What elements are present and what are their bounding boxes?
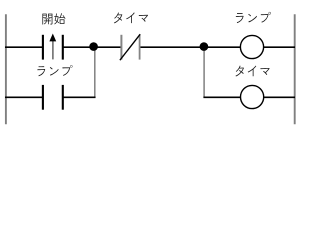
wire: lamp contact to branch A corner xyxy=(63,96,96,98)
label ランプ (lamp coil) xyxy=(236,12,271,23)
wire: left rail to lamp contact xyxy=(5,96,43,98)
label タイマ (NC contact) xyxy=(114,12,148,23)
label 開始 xyxy=(42,13,65,24)
wire: timer NC contact to node B xyxy=(140,46,204,48)
right power rail xyxy=(294,14,296,124)
contact 開始 left plate xyxy=(42,35,44,60)
contact 開始 rising-edge arrow shaft xyxy=(52,41,54,60)
junction node A xyxy=(89,42,98,51)
wire: lamp coil to right rail xyxy=(264,46,295,48)
wire: left rail to start contact xyxy=(5,46,43,48)
contact タイマ NC left plate xyxy=(120,35,122,60)
left power rail xyxy=(5,14,7,124)
wire: start contact to node A xyxy=(63,46,94,48)
contact タイマ NC right plate xyxy=(139,35,141,60)
wire: timer coil to right rail xyxy=(264,96,295,98)
coil ランプ xyxy=(240,35,263,58)
label タイマ (timer coil) xyxy=(236,66,270,77)
label ランプ (lamp contact) xyxy=(37,65,72,76)
wire: branch B corner to timer coil xyxy=(203,96,240,98)
contact ランプ right plate xyxy=(62,85,64,110)
contact 開始 right plate xyxy=(62,35,64,60)
contact タイマ NC slash xyxy=(120,34,140,60)
wire: node B to lamp coil xyxy=(204,46,240,48)
contact 開始 rising-edge arrow head xyxy=(49,34,56,42)
wire: node A to timer NC contact xyxy=(94,46,122,48)
branch wire from node A down to rung 2 xyxy=(94,47,96,97)
coil タイマ xyxy=(241,85,264,108)
contact ランプ left plate xyxy=(42,85,44,110)
branch wire from node B down to rung 2 xyxy=(203,47,205,97)
junction node B xyxy=(200,42,209,51)
